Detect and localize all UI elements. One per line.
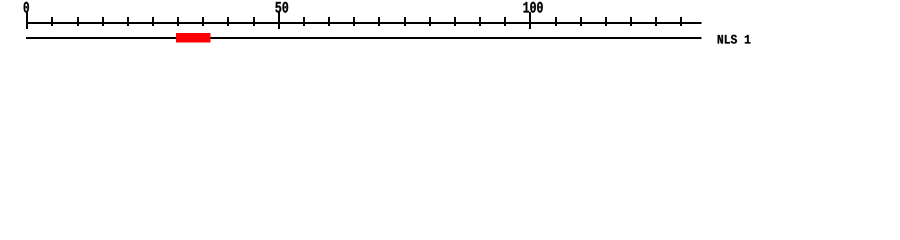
- ruler label 100: [523, 2, 542, 13]
- background: [0, 0, 900, 58]
- ruler label 50: [275, 2, 288, 13]
- tick 55: [303, 17, 305, 26]
- tick 10: [77, 17, 79, 26]
- tick 95: [504, 17, 506, 26]
- tick 125: [655, 17, 657, 26]
- tick 20: [127, 17, 129, 26]
- tick 65: [353, 17, 355, 26]
- ruler label 0: [24, 2, 29, 13]
- major tick 0: [26, 12, 28, 29]
- major tick 50: [278, 12, 280, 29]
- tick 115: [605, 17, 607, 26]
- tick 80: [429, 17, 431, 26]
- tick 130: [680, 17, 682, 26]
- tick 75: [404, 17, 406, 26]
- tick 120: [630, 17, 632, 26]
- tick 30: [177, 17, 179, 26]
- tick 45: [253, 17, 255, 26]
- tick 60: [328, 17, 330, 26]
- tick 40: [227, 17, 229, 26]
- sequence feature map: ruler + feature line with NLS 1 red box: [0, 0, 900, 58]
- ruler axis line: [26, 22, 702, 24]
- tick 5: [51, 17, 53, 26]
- tick 90: [479, 17, 481, 26]
- feature (sequence) line: [26, 37, 702, 39]
- tick 85: [454, 17, 456, 26]
- tick 110: [580, 17, 582, 26]
- tick 105: [555, 17, 557, 26]
- tick 15: [102, 17, 104, 26]
- tick 35: [202, 17, 204, 26]
- feature box NLS 1 (red): [176, 33, 211, 43]
- feature label NLS 1: [718, 35, 751, 44]
- tick 25: [152, 17, 154, 26]
- major tick 100: [529, 12, 531, 29]
- tick 70: [378, 17, 380, 26]
